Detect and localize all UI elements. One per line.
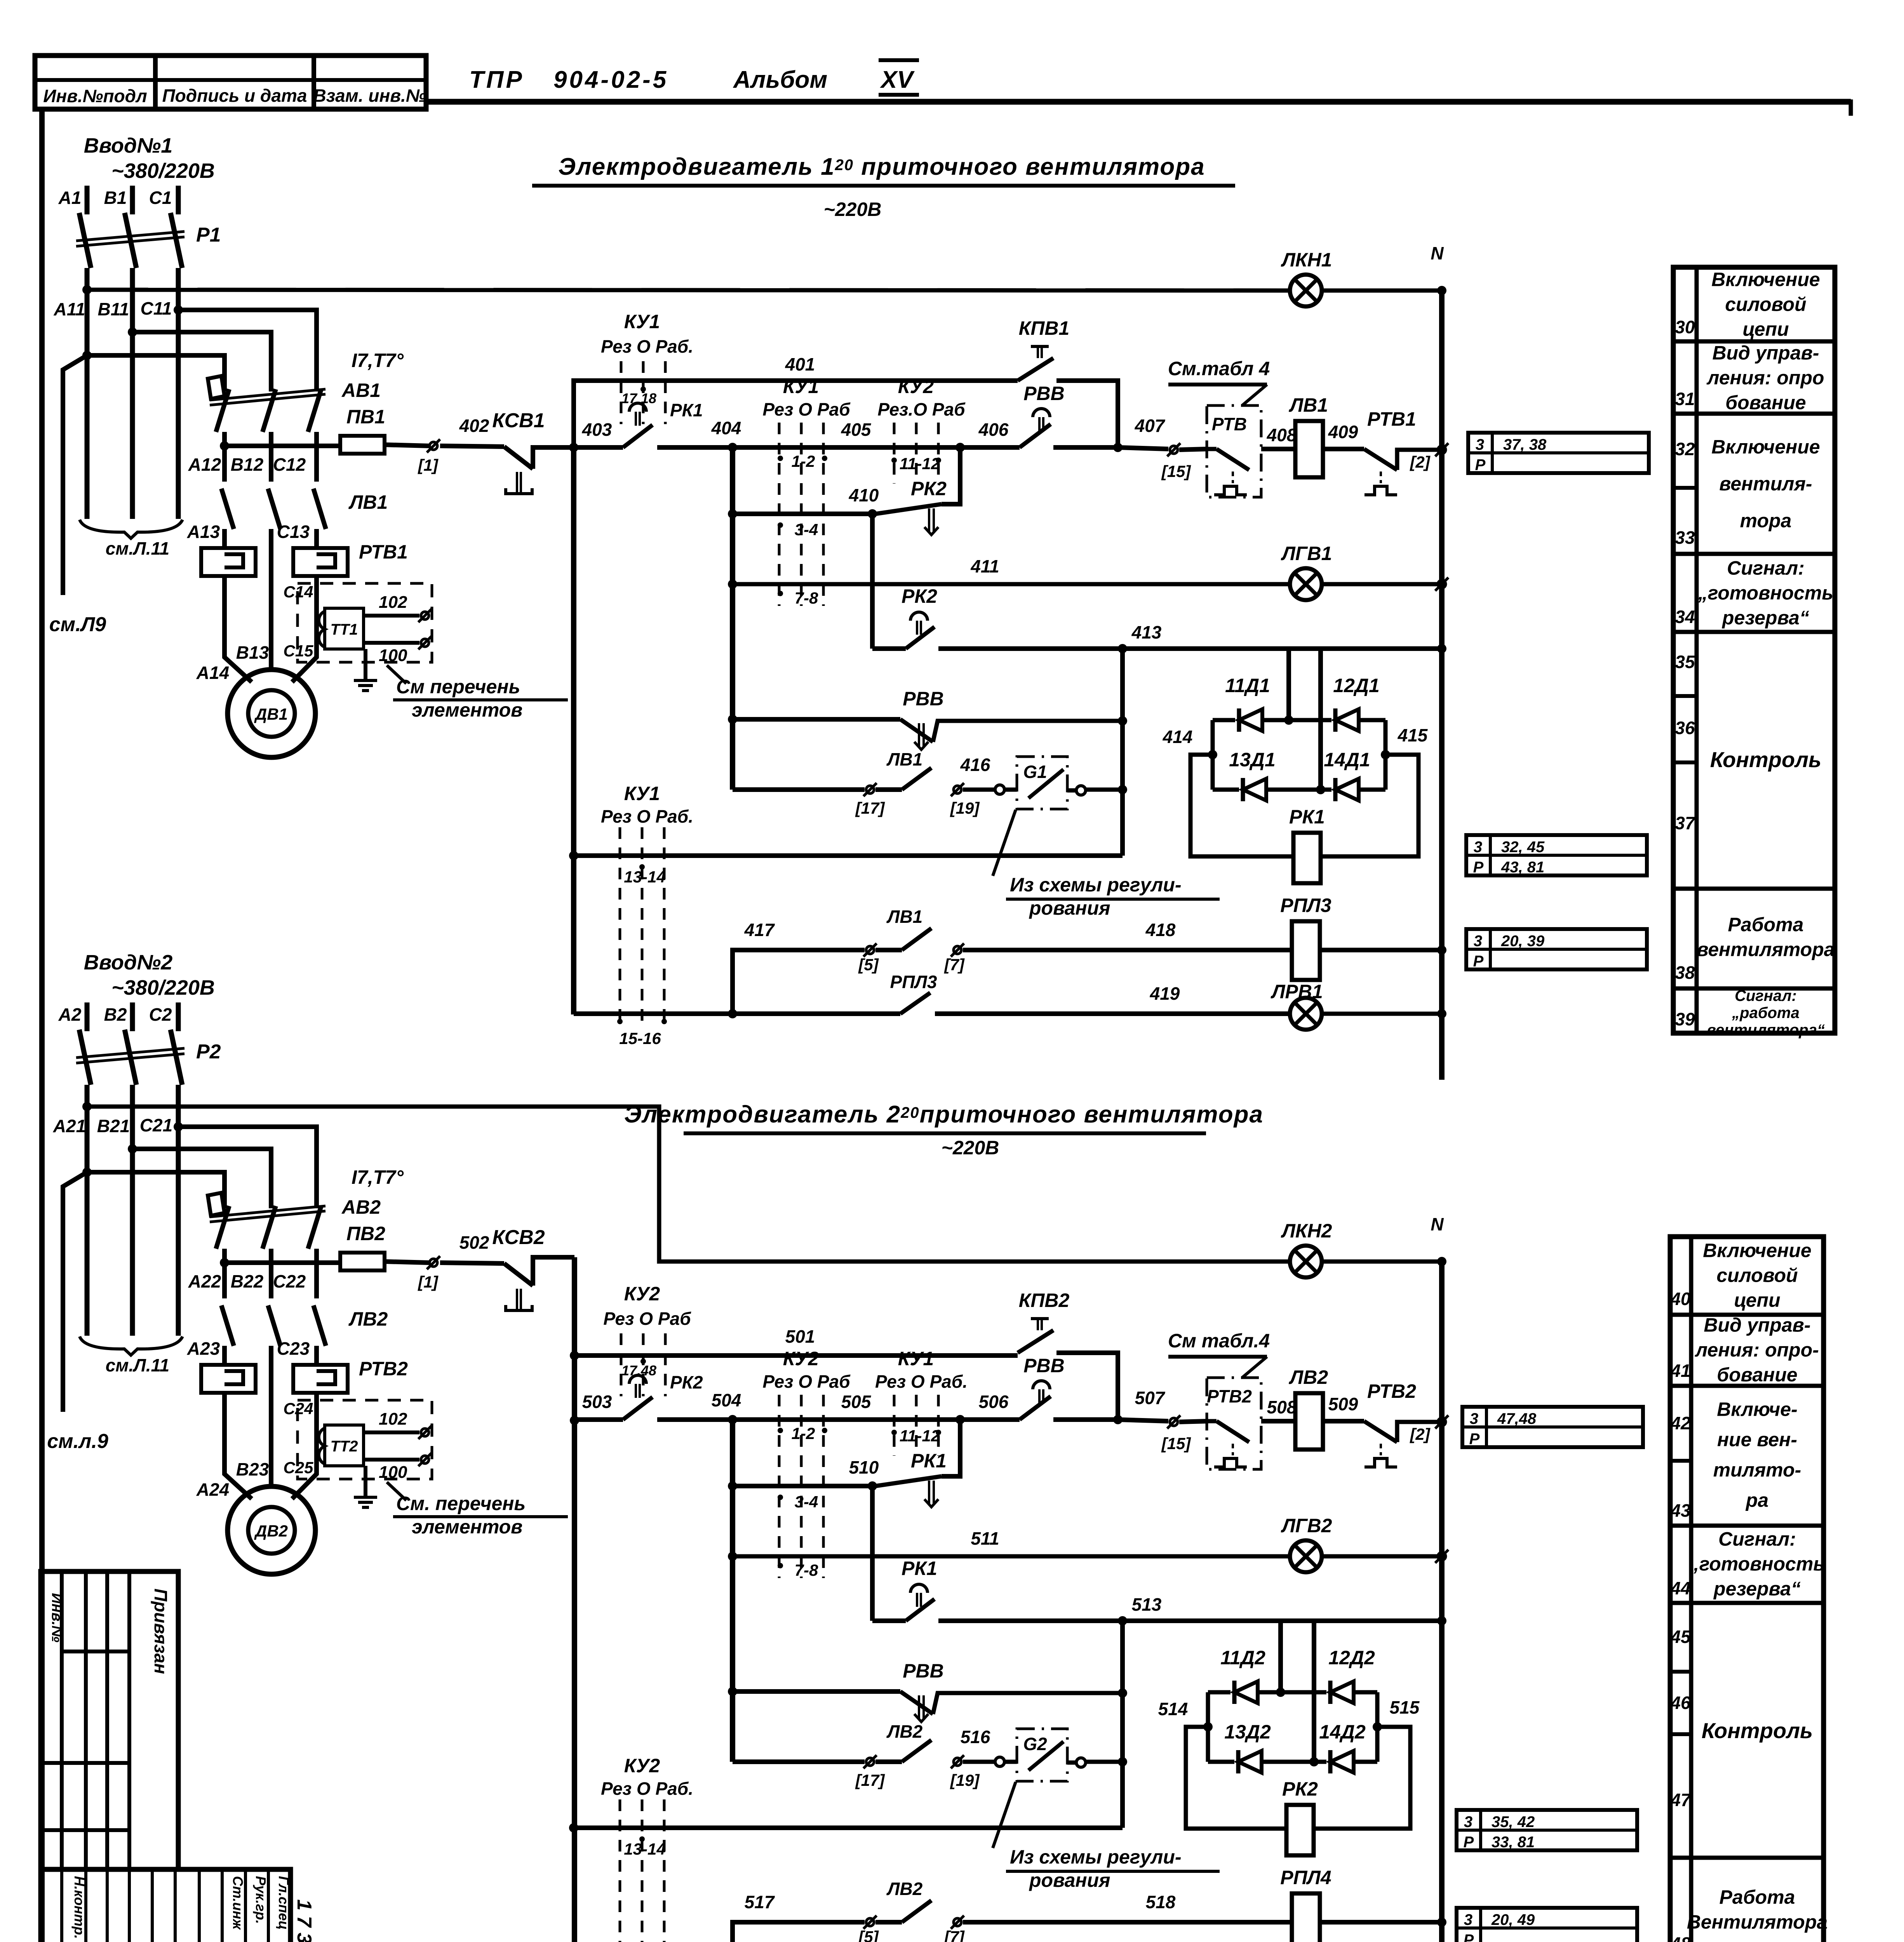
relay coil РПЛ3 — [1292, 921, 1320, 980]
node N rail sec1 — [1437, 286, 1446, 295]
contactor main contacts ЛВ1 — [221, 489, 234, 529]
svg-text:РК1: РК1 — [911, 1450, 947, 1472]
svg-text:ЛВ1: ЛВ1 — [348, 491, 388, 513]
svg-text:515: 515 — [1390, 1697, 1420, 1718]
svg-text:В21: В21 — [97, 1116, 130, 1136]
wire 411 — [728, 579, 737, 589]
svg-text:3: 3 — [1464, 1911, 1472, 1928]
fuse ПВ2 and wire 502 — [220, 1258, 229, 1267]
svg-text:В1: В1 — [104, 188, 127, 208]
svg-text:РВВ: РВВ — [1023, 1355, 1065, 1376]
svg-text:Ст.инж: Ст.инж — [230, 1876, 246, 1930]
reference box 20,39 — [1466, 929, 1647, 969]
svg-text:[7]: [7] — [943, 1928, 965, 1942]
svg-text:37, 38: 37, 38 — [1503, 436, 1547, 453]
wire 503 — [570, 1416, 579, 1425]
svg-text:ПВ1: ПВ1 — [346, 406, 385, 428]
svg-text:7-8: 7-8 — [795, 589, 818, 607]
svg-text:[17]: [17] — [855, 799, 886, 817]
leader to note Из схемы регулирования — [993, 810, 1016, 876]
svg-text:Р: Р — [1473, 953, 1484, 970]
svg-text:1-2: 1-2 — [792, 1424, 815, 1443]
svg-text:Работа: Работа — [1728, 914, 1804, 936]
svg-text:Включе-: Включе- — [1717, 1399, 1798, 1420]
svg-text:см.Л9: см.Л9 — [49, 613, 106, 636]
svg-text:405: 405 — [841, 419, 872, 440]
svg-text:508: 508 — [1267, 1397, 1297, 1417]
svg-text:А22: А22 — [188, 1271, 221, 1291]
svg-text:410: 410 — [849, 485, 879, 505]
svg-text:408: 408 — [1267, 425, 1297, 445]
wire 517 — [733, 1922, 865, 1942]
svg-text:Инв.№: Инв.№ — [49, 1593, 65, 1642]
second control rail — [730, 447, 735, 790]
svg-text:Р: Р — [1475, 456, 1486, 473]
svg-text:15-16: 15-16 — [619, 1029, 661, 1048]
svg-text:Рук.гр.: Рук.гр. — [253, 1876, 269, 1924]
svg-text:КУ2: КУ2 — [783, 1348, 819, 1369]
svg-text:13Д2: 13Д2 — [1224, 1721, 1271, 1743]
svg-text:34: 34 — [1675, 607, 1695, 627]
phase line В2 — [130, 1002, 135, 1031]
svg-text:[15]: [15] — [1161, 1434, 1192, 1453]
svg-text:РК2: РК2 — [670, 1372, 703, 1392]
svg-text:[1]: [1] — [417, 456, 439, 474]
relay coil РПЛ4 — [1292, 1893, 1320, 1942]
phase line В1 — [130, 186, 135, 214]
svg-text:Р: Р — [1464, 1834, 1474, 1851]
svg-text:I7,Т7°: I7,Т7° — [352, 1166, 404, 1188]
svg-text:РК2: РК2 — [902, 585, 937, 607]
svg-text:Инв.№подл: Инв.№подл — [43, 86, 147, 106]
svg-text:ЛВ1: ЛВ1 — [1289, 394, 1328, 416]
node wire 504 — [728, 1415, 737, 1424]
auxiliary rail right of G box — [1120, 649, 1125, 856]
brace см.Л.11 — [80, 520, 183, 538]
switch КСВ2 — [440, 1263, 504, 1263]
wire 518 — [963, 1920, 1292, 1925]
svg-text:Электродвигатель 120 приточног: Электродвигатель 120 приточного вентилят… — [558, 153, 1205, 180]
leader to note Из схемы регулирования — [993, 1782, 1016, 1848]
svg-text:Вид управ-: Вид управ- — [1704, 1314, 1811, 1336]
svg-text:13-14: 13-14 — [624, 1840, 665, 1858]
svg-text:силовой: силовой — [1725, 294, 1806, 315]
wire 417 — [733, 950, 865, 1015]
wire 508 — [1261, 1419, 1295, 1423]
connector on N rail wire 409 — [1438, 446, 1446, 454]
svg-text:РПЛ3: РПЛ3 — [1280, 894, 1331, 916]
reference box 37,38 — [1468, 433, 1649, 473]
sheet frame left border — [39, 109, 45, 1942]
svg-text:РТВ2: РТВ2 — [359, 1358, 408, 1380]
svg-text:Р: Р — [1464, 1932, 1474, 1942]
svg-text:Взам. инв.№: Взам. инв.№ — [313, 85, 426, 106]
svg-text:вентилятора“: вентилятора“ — [1707, 1021, 1825, 1039]
svg-text:Из схемы регули-: Из схемы регули- — [1010, 874, 1182, 896]
connector [1] on wire 502 — [430, 1259, 437, 1267]
svg-text:102: 102 — [379, 1410, 407, 1429]
thermal relay РТВ1 heater phase A — [201, 548, 256, 576]
lamp ЛГВ2 — [1290, 1540, 1322, 1572]
svg-text:414: 414 — [1163, 727, 1193, 747]
brace см.Л.11 — [80, 1336, 183, 1355]
svg-text:3-4: 3-4 — [795, 520, 818, 539]
note См перечень элементов — [387, 1482, 406, 1500]
wire см.Л9 — [63, 1172, 87, 1412]
svg-text:А2: А2 — [58, 1004, 82, 1025]
phase line С1 — [176, 186, 181, 214]
svg-text:См. перечень: См. перечень — [396, 1493, 526, 1514]
svg-text:цепи: цепи — [1742, 318, 1789, 340]
svg-text:РТВ1: РТВ1 — [1367, 408, 1416, 430]
lamp ЛРВ1 — [1290, 998, 1322, 1030]
svg-text:См перечень: См перечень — [396, 676, 520, 698]
auxiliary rail right of G box — [1120, 1621, 1125, 1828]
svg-text:40: 40 — [1670, 1289, 1691, 1309]
svg-text:РВВ: РВВ — [903, 688, 944, 710]
regulator block G2 — [1017, 1729, 1067, 1781]
svg-text:44: 44 — [1670, 1578, 1690, 1598]
cup contact РК2 on wire 413 — [872, 646, 906, 651]
vertical taps from wire 513 to bridge — [1278, 1621, 1283, 1692]
svg-text:3-4: 3-4 — [795, 1493, 818, 1511]
svg-text:цепи: цепи — [1734, 1289, 1780, 1311]
svg-text:См.табл 4: См.табл 4 — [1168, 358, 1270, 379]
svg-text:513: 513 — [1132, 1594, 1162, 1615]
svg-text:17 18: 17 18 — [621, 390, 656, 406]
svg-text:47,48: 47,48 — [1497, 1410, 1537, 1427]
svg-text:резерва“: резерва“ — [1721, 607, 1809, 629]
svg-text:С22: С22 — [273, 1271, 306, 1291]
wire 414 — [1208, 750, 1217, 759]
svg-text:33: 33 — [1675, 527, 1695, 548]
svg-text:РВВ: РВВ — [903, 1660, 944, 1682]
svg-text:11Д2: 11Д2 — [1220, 1647, 1265, 1669]
current transformer ТТ1 — [325, 608, 364, 649]
tap wire phase A to breaker — [82, 351, 92, 360]
svg-text:А13: А13 — [187, 522, 220, 542]
svg-text:силовой: силовой — [1716, 1265, 1798, 1286]
bridge side verticals — [1206, 1692, 1210, 1762]
svg-text:ние вен-: ние вен- — [1717, 1429, 1797, 1451]
svg-text:31: 31 — [1675, 389, 1695, 409]
svg-text:39: 39 — [1675, 1009, 1695, 1029]
svg-text:ЛВ2: ЛВ2 — [886, 1879, 923, 1899]
svg-text:А1: А1 — [58, 188, 82, 208]
svg-text:А21: А21 — [53, 1116, 86, 1136]
svg-text:[1]: [1] — [417, 1273, 439, 1291]
svg-text:ТТ2: ТТ2 — [330, 1438, 358, 1455]
svg-text:407: 407 — [1135, 416, 1166, 436]
svg-text:G1: G1 — [1023, 762, 1047, 782]
lamp ЛКН1 — [1290, 275, 1322, 306]
svg-text:518: 518 — [1146, 1892, 1176, 1912]
phase line А2 — [85, 1002, 90, 1031]
wire 511 — [728, 1552, 737, 1561]
svg-text:КУ2: КУ2 — [624, 1755, 660, 1777]
push contact КПВ2 — [1018, 1330, 1053, 1353]
wire to motor phase B — [269, 548, 273, 670]
svg-text:рования: рования — [1029, 897, 1110, 919]
svg-text:см.л.9: см.л.9 — [47, 1430, 108, 1453]
svg-text:30: 30 — [1675, 317, 1695, 337]
svg-text:46: 46 — [1670, 1693, 1691, 1713]
svg-text:~380/220В: ~380/220В — [111, 159, 215, 183]
svg-text:С13: С13 — [277, 522, 310, 542]
svg-text:Рез.О Раб: Рез.О Раб — [877, 399, 966, 419]
svg-text:РТВ2: РТВ2 — [1207, 1386, 1252, 1406]
svg-text:13-14: 13-14 — [624, 868, 665, 886]
svg-text:В13: В13 — [236, 642, 269, 663]
svg-text:ЛВ2: ЛВ2 — [348, 1308, 388, 1330]
svg-text:17.48: 17.48 — [621, 1363, 656, 1378]
svg-text:503: 503 — [582, 1392, 612, 1412]
svg-text:37: 37 — [1675, 813, 1696, 833]
svg-text:С23: С23 — [277, 1338, 310, 1359]
svg-text:Вид управ-: Вид управ- — [1713, 342, 1819, 364]
svg-text:КУ2: КУ2 — [898, 376, 934, 397]
wire 501 down to 506 — [1056, 1353, 1118, 1420]
svg-text:[2]: [2] — [1409, 453, 1431, 471]
function table rows 40-49 (right of lower schematic) — [1670, 1237, 1824, 1942]
wire см.Л9 — [63, 355, 87, 595]
svg-text:416: 416 — [960, 755, 990, 775]
svg-text:35, 42: 35, 42 — [1492, 1813, 1535, 1831]
svg-text:Включение: Включение — [1711, 269, 1820, 291]
reference box 20,49 — [1457, 1908, 1637, 1942]
CT dashed enclosure — [298, 583, 432, 662]
svg-text:17333 - 16: 17333 - 16 — [293, 1899, 315, 1942]
svg-text:ДВ1: ДВ1 — [254, 705, 288, 723]
svg-text:511: 511 — [971, 1528, 999, 1549]
svg-text:КСВ2: КСВ2 — [492, 1226, 545, 1249]
wire 401 — [574, 381, 1018, 447]
svg-text:Работа: Работа — [1720, 1886, 1795, 1908]
svg-text:510: 510 — [849, 1457, 879, 1477]
regulator block G1 — [1017, 757, 1067, 809]
svg-text:ЛКН1: ЛКН1 — [1281, 249, 1332, 271]
svg-text:38: 38 — [1675, 962, 1695, 983]
svg-text:3: 3 — [1464, 1813, 1472, 1831]
time contact РВВ (закрывается с выдержкой) — [728, 715, 737, 724]
circuit breaker АВ1 — [222, 375, 227, 392]
time contact РВВ on wire 506 — [960, 1417, 1020, 1422]
svg-text:С1: С1 — [149, 188, 172, 208]
svg-text:РК2: РК2 — [1282, 1778, 1318, 1800]
svg-text:Альбом: Альбом — [733, 66, 827, 93]
svg-text:КУ1: КУ1 — [624, 783, 660, 804]
time contact РВВ (закрывается с выдержкой) — [728, 1687, 737, 1696]
svg-text:КУ2: КУ2 — [624, 1283, 660, 1305]
relay coil РК1 — [1293, 833, 1321, 883]
svg-text:401: 401 — [785, 354, 815, 374]
wire phase A to lamp ЛКН2 (with jog) — [82, 1102, 92, 1111]
svg-text:406: 406 — [978, 419, 1009, 440]
connector [15] wire 507 — [1170, 1418, 1178, 1426]
wire to motor phase A — [225, 576, 252, 682]
wire to motor phase A — [225, 1393, 252, 1499]
node N rail sec2 — [1437, 1257, 1446, 1266]
wire 401 down to 406 — [1056, 381, 1118, 447]
svg-text:КПВ1: КПВ1 — [1019, 317, 1070, 339]
contact ЛВ1 on wire 417 — [902, 928, 931, 950]
svg-text:КУ1: КУ1 — [624, 311, 660, 332]
tap wire phase B to breaker — [128, 327, 137, 337]
svg-text:3: 3 — [1474, 839, 1482, 856]
connector [15] wire 407 — [1170, 446, 1178, 454]
svg-text:РК1: РК1 — [902, 1557, 937, 1579]
svg-text:РТВ: РТВ — [1212, 414, 1247, 434]
thermal relay contact РТВ (panel) dash-dot box — [1207, 405, 1261, 497]
svg-text:ЛВ1: ЛВ1 — [886, 749, 922, 769]
svg-text:[5]: [5] — [858, 1928, 879, 1942]
ground symbol — [364, 649, 367, 679]
svg-text:А23: А23 — [187, 1338, 220, 1359]
svg-text:XV: XV — [880, 66, 915, 93]
svg-text:РК1: РК1 — [670, 400, 703, 420]
wire 13-14 of КУ2 — [569, 1823, 578, 1832]
time contact РК2 bridging 404 to 410 — [942, 447, 960, 504]
svg-text:рования: рования — [1029, 1869, 1110, 1891]
thermal relay РТВ2 heater phase C — [293, 1365, 348, 1393]
time contact РК1 bridging 504 to 510 — [942, 1420, 960, 1476]
relay contact РК2 on wire 503 — [623, 1397, 653, 1420]
svg-text:20, 39: 20, 39 — [1501, 933, 1545, 950]
svg-text:505: 505 — [841, 1392, 872, 1412]
svg-text:элементов: элементов — [412, 699, 522, 721]
svg-text:Р1: Р1 — [196, 224, 221, 246]
svg-text:14Д2: 14Д2 — [1319, 1721, 1366, 1743]
lamp ЛГВ1 — [1290, 568, 1322, 600]
wire to motor phase C — [292, 1393, 317, 1499]
svg-text:Контроль: Контроль — [1702, 1718, 1813, 1743]
svg-text:417: 417 — [744, 920, 775, 940]
svg-text:РК2: РК2 — [911, 478, 947, 499]
svg-text:ДВ2: ДВ2 — [254, 1522, 288, 1540]
wire 409 — [1323, 447, 1364, 451]
svg-text:В23: В23 — [236, 1459, 269, 1479]
svg-text:Р: Р — [1469, 1430, 1480, 1448]
wire 418 — [963, 948, 1292, 952]
wire 513 — [938, 1618, 1442, 1623]
thermal relay РТВ2 heater phase A — [201, 1365, 256, 1393]
node 506 — [955, 1415, 965, 1424]
svg-text:[19]: [19] — [950, 799, 980, 817]
svg-text:514: 514 — [1158, 1699, 1188, 1719]
motor ДВ2 — [228, 1486, 315, 1574]
svg-text:АВ1: АВ1 — [341, 379, 381, 401]
vertical taps from wire 413 to bridge — [1286, 649, 1291, 720]
CT secondary wires 102 100 — [364, 614, 419, 618]
svg-text:43: 43 — [1670, 1500, 1691, 1521]
svg-text:ЛГВ1: ЛГВ1 — [1281, 543, 1332, 564]
svg-text:Рез О Раб.: Рез О Раб. — [601, 1778, 693, 1799]
svg-text:13Д1: 13Д1 — [1229, 749, 1276, 771]
contactor coil ЛВ2 — [1295, 1393, 1323, 1450]
svg-text:резерва“: резерва“ — [1713, 1578, 1801, 1600]
svg-text:„готовность: „готовность — [1689, 1553, 1825, 1575]
wire КСВ1 to control rail — [533, 447, 574, 469]
wire 415 — [1381, 750, 1390, 759]
svg-text:РПЛ4: РПЛ4 — [1280, 1867, 1331, 1888]
wire 13-14 of КУ1 — [569, 851, 578, 860]
wire 408 — [1261, 447, 1295, 451]
second control rail — [730, 1420, 735, 1762]
wire 514 — [1203, 1722, 1213, 1731]
svg-text:[2]: [2] — [1409, 1425, 1431, 1443]
svg-text:I7,Т7°: I7,Т7° — [352, 350, 404, 371]
svg-text:С12: С12 — [273, 454, 306, 475]
svg-text:АВ2: АВ2 — [341, 1196, 381, 1218]
svg-text:Гл.спец: Гл.спец — [276, 1876, 292, 1930]
svg-text:43, 81: 43, 81 — [1501, 859, 1544, 876]
wire 403 — [569, 443, 578, 452]
svg-text:КУ1: КУ1 — [783, 376, 819, 397]
svg-text:32, 45: 32, 45 — [1501, 839, 1545, 856]
title block signature grid — [41, 1869, 291, 1942]
svg-text:509: 509 — [1328, 1394, 1358, 1414]
svg-text:502: 502 — [459, 1232, 489, 1253]
svg-text:48: 48 — [1670, 1933, 1691, 1942]
svg-text:В2: В2 — [104, 1004, 127, 1025]
svg-text:N: N — [1431, 1214, 1444, 1234]
svg-text:[5]: [5] — [858, 955, 879, 974]
svg-text:41: 41 — [1670, 1361, 1690, 1381]
svg-text:35: 35 — [1675, 652, 1695, 672]
tap wire phase C to breaker — [174, 1122, 183, 1131]
wire phase A to lamp ЛКН1 — [82, 285, 92, 294]
svg-text:Р2: Р2 — [196, 1041, 221, 1063]
svg-text:см.Л.11: см.Л.11 — [106, 1355, 170, 1375]
svg-text:32: 32 — [1675, 439, 1695, 459]
svg-text:Ввод№1: Ввод№1 — [84, 134, 173, 157]
svg-text:ТТ1: ТТ1 — [330, 621, 358, 638]
svg-text:Контроль: Контроль — [1710, 747, 1822, 772]
phase continuation below switch — [85, 1085, 90, 1336]
wire 501 — [570, 1351, 579, 1360]
svg-text:413: 413 — [1131, 622, 1162, 642]
function table rows 30-39 (right of upper schematic) — [1673, 267, 1835, 1033]
svg-text:Сигнал:: Сигнал: — [1735, 987, 1797, 1004]
svg-text:вентилятора: вентилятора — [1697, 939, 1834, 961]
wire 515 — [1373, 1722, 1382, 1731]
node 406 — [955, 443, 965, 452]
svg-text:ЛКН2: ЛКН2 — [1281, 1220, 1332, 1242]
svg-text:бование: бование — [1725, 392, 1806, 414]
svg-text:7-8: 7-8 — [795, 1561, 818, 1579]
svg-text:В12: В12 — [231, 454, 264, 475]
wire 516 through contact ЛВ2 to block G2 — [733, 1759, 865, 1764]
svg-text:[15]: [15] — [1161, 462, 1192, 480]
svg-text:КПВ2: КПВ2 — [1019, 1289, 1070, 1311]
svg-text:ЛВ1: ЛВ1 — [886, 907, 922, 927]
svg-text:элементов: элементов — [412, 1516, 522, 1538]
CT secondary wires 102 100 — [364, 1430, 419, 1434]
motor ДВ1 — [228, 670, 315, 757]
svg-text:12Д2: 12Д2 — [1328, 1647, 1375, 1669]
svg-text:45: 45 — [1670, 1627, 1691, 1647]
svg-text:504: 504 — [712, 1390, 741, 1410]
svg-text:тилято-: тилято- — [1713, 1459, 1801, 1481]
svg-text:403: 403 — [582, 419, 612, 440]
svg-text:415: 415 — [1398, 725, 1428, 745]
cup contact РК1 on wire 513 — [872, 1618, 906, 1623]
wire 413 — [938, 646, 1442, 651]
title block upper box dividers — [62, 1650, 129, 1653]
svg-text:[17]: [17] — [855, 1771, 886, 1789]
svg-text:С2: С2 — [149, 1004, 172, 1025]
switch КСВ1 — [440, 446, 504, 447]
